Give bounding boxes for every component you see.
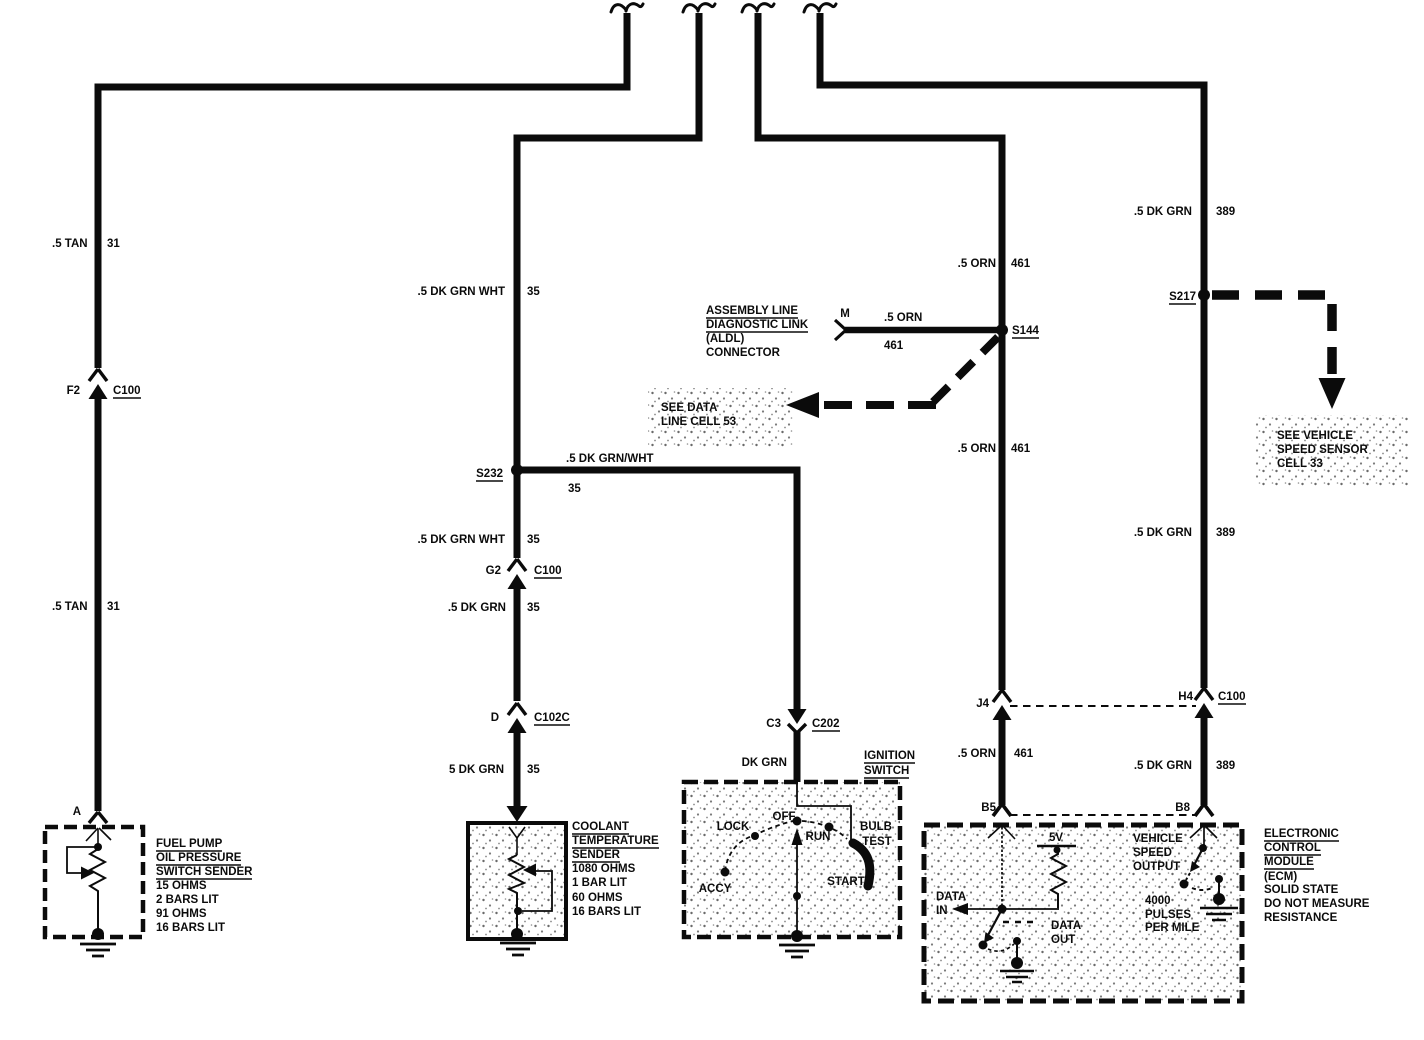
label .5 ORN 461 upper — [958, 258, 1031, 270]
splice S144 — [996, 324, 1008, 336]
fuel pump sender ground — [80, 944, 116, 956]
svg-text:DATA: DATA — [936, 891, 966, 903]
svg-text:31: 31 — [107, 238, 120, 250]
ignition switch OFF contact — [793, 817, 802, 826]
arrow into coolant sender — [507, 806, 528, 822]
svg-text:DK GRN: DK GRN — [742, 757, 787, 769]
fuel pump sender wiper loop — [67, 847, 98, 873]
svg-text:35: 35 — [527, 534, 540, 546]
svg-text:S144: S144 — [1012, 325, 1039, 337]
svg-text:ACCY: ACCY — [699, 883, 732, 895]
svg-text:60 OHMS: 60 OHMS — [572, 892, 623, 904]
ECM data junction node — [998, 905, 1007, 914]
svg-text:.5 DK GRN: .5 DK GRN — [1134, 527, 1192, 539]
svg-text:SPEED: SPEED — [1133, 847, 1172, 859]
svg-text:.5 DK GRN WHT: .5 DK GRN WHT — [417, 286, 505, 298]
coolant sender junction node — [514, 907, 522, 915]
fuel pump sender resistor — [90, 849, 105, 931]
fuel pump sender wiper arrow — [81, 867, 94, 880]
svg-text:.5 DK GRN WHT: .5 DK GRN WHT — [417, 534, 505, 546]
svg-text:F2: F2 — [67, 385, 80, 397]
ECM data out switch open contact — [979, 941, 988, 950]
svg-text:35: 35 — [568, 483, 581, 495]
svg-text:.5 ORN: .5 ORN — [958, 443, 996, 455]
svg-text:SPEED SENSOR: SPEED SENSOR — [1277, 444, 1368, 456]
coolant temperature sender box — [468, 823, 566, 939]
svg-text:.5 TAN: .5 TAN — [52, 238, 88, 250]
ignition switch detent arc dashed — [725, 821, 847, 871]
ignition switch ground — [779, 945, 815, 957]
svg-text:CONNECTOR: CONNECTOR — [706, 347, 781, 359]
svg-text:ELECTRONIC: ELECTRONIC — [1264, 828, 1339, 840]
ECM data out throw dashes — [1003, 921, 1036, 924]
svg-text:IGNITION: IGNITION — [864, 750, 915, 762]
wire .5 DK GRN WHT 35 from stub2 down to coolant sender — [517, 13, 699, 807]
electronic control module box — [924, 825, 1242, 1001]
connector B5 female half at ECM — [993, 804, 1011, 816]
svg-text:SOLID STATE: SOLID STATE — [1264, 884, 1339, 896]
coolant sender internal wire — [516, 838, 518, 855]
svg-text:35: 35 — [527, 602, 540, 614]
label F2 C100 — [67, 385, 141, 398]
ECM vss ground — [1200, 908, 1238, 920]
off-page curl symbol stub 1 — [611, 4, 643, 12]
svg-text:2 BARS LIT: 2 BARS LIT — [156, 894, 219, 906]
ECM vss throw dashes — [1192, 888, 1212, 890]
label B8 pin — [1175, 802, 1190, 814]
label BULB TEST — [860, 821, 892, 848]
svg-text:OUTPUT: OUTPUT — [1133, 861, 1180, 873]
svg-text:(ECM): (ECM) — [1264, 871, 1297, 883]
svg-text:461: 461 — [1014, 748, 1034, 760]
label G2 C100 — [486, 565, 562, 578]
ECM data line internal wire — [1001, 827, 1003, 906]
dashed connector line J4 H4 — [1010, 705, 1196, 707]
fuel pump sender junction node — [94, 843, 102, 851]
label ELECTRONIC CONTROL MODULE ECM — [1264, 828, 1370, 924]
svg-text:.5 ORN: .5 ORN — [958, 258, 996, 270]
arrow to data line cell 53 — [786, 392, 819, 418]
svg-text:35: 35 — [527, 286, 540, 298]
svg-text:MODULE: MODULE — [1264, 856, 1314, 868]
connector H4 C100 male arrow — [1195, 703, 1214, 718]
svg-text:D: D — [491, 712, 499, 724]
svg-text:S217: S217 — [1169, 291, 1196, 303]
label S144 — [1012, 325, 1039, 338]
svg-text:PER MILE: PER MILE — [1145, 922, 1200, 934]
svg-text:1080 OHMS: 1080 OHMS — [572, 863, 636, 875]
ECM data out dashed arc to ground contact — [988, 944, 1014, 951]
wire ALDL connector M to S144 — [845, 327, 1002, 334]
connector B8 female half at ECM — [1195, 804, 1213, 816]
svg-text:SEE DATA: SEE DATA — [661, 402, 717, 414]
ECM vss node — [1199, 844, 1207, 852]
dashed wire from S144 to data line reference — [820, 337, 998, 405]
coolant sender internal chevron — [509, 827, 525, 838]
label RUN — [806, 831, 831, 843]
label COOLANT TEMPERATURE SENDER — [572, 821, 659, 918]
coolant sender ground node — [511, 928, 523, 940]
label 4000 PULSES PER MILE — [1145, 895, 1200, 934]
svg-text:16 BARS LIT: 16 BARS LIT — [572, 906, 641, 918]
svg-text:DIAGNOSTIC LINK: DIAGNOSTIC LINK — [706, 319, 809, 331]
shaded background SEE DATA LINE CELL 53 — [648, 388, 793, 447]
ECM data out switch blade — [984, 911, 1001, 943]
svg-text:CELL 33: CELL 33 — [1277, 458, 1323, 470]
svg-text:SWITCH: SWITCH — [864, 765, 909, 777]
ECM pull-up resistor — [1051, 850, 1066, 908]
ECM vss switch open contact — [1180, 880, 1189, 889]
note SEE DATA LINE CELL 53 — [661, 402, 736, 428]
svg-text:IN: IN — [936, 905, 948, 917]
svg-text:4000: 4000 — [1145, 895, 1171, 907]
label DATA IN — [936, 891, 966, 917]
svg-text:35: 35 — [527, 764, 540, 776]
svg-text:DATA: DATA — [1051, 920, 1081, 932]
ECM vss ground contact — [1213, 875, 1225, 905]
label OFF — [773, 811, 796, 823]
svg-text:1 BAR LIT: 1 BAR LIT — [572, 877, 627, 889]
svg-text:TEST: TEST — [862, 836, 891, 848]
svg-text:FUEL PUMP: FUEL PUMP — [156, 838, 223, 850]
connector M female legs — [835, 320, 846, 340]
label VEHICLE SPEED OUTPUT — [1133, 833, 1183, 873]
connector C3 C202 female half — [788, 724, 806, 733]
svg-text:B8: B8 — [1175, 802, 1190, 814]
label .5 DK GRN 389 lower — [1134, 760, 1235, 772]
coolant sender wiper arrow — [523, 864, 536, 877]
svg-text:C100: C100 — [1218, 691, 1246, 703]
svg-text:PULSES: PULSES — [1145, 909, 1191, 921]
ECM data out ground contact — [1011, 937, 1023, 969]
ECM DATA IN arrow — [952, 903, 1059, 915]
label J4 — [976, 698, 989, 710]
connector H4 C100 female half — [1195, 688, 1213, 700]
wire .5 TAN 31 from stub1 down to fuel pump sender — [98, 13, 627, 811]
label .5 DK GRN 389 upper — [1134, 206, 1235, 218]
label LOCK — [717, 821, 750, 833]
connector J4 C100 female half — [993, 690, 1011, 702]
svg-text:C102C: C102C — [534, 712, 570, 724]
svg-text:S232: S232 — [476, 468, 503, 480]
label D C102C — [491, 712, 570, 725]
svg-text:461: 461 — [1011, 443, 1031, 455]
svg-text:461: 461 — [1011, 258, 1031, 270]
svg-text:SENDER: SENDER — [572, 849, 621, 861]
svg-text:.5 DK GRN: .5 DK GRN — [1134, 206, 1192, 218]
note SEE VEHICLE SPEED SENSOR CELL 33 — [1277, 430, 1368, 470]
ECM vss switch blade — [1186, 850, 1202, 880]
connector D C102C female half — [508, 703, 526, 715]
label assembly line diagnostic link connector — [706, 305, 809, 359]
label .5 DK GRN WHT 35 mid — [417, 534, 540, 546]
label DK GRN — [742, 757, 787, 769]
label S217 — [1169, 291, 1196, 304]
svg-text:VEHICLE: VEHICLE — [1133, 833, 1183, 845]
ECM vss internal wire — [1203, 827, 1205, 846]
fuel pump sender internal contact arc — [86, 828, 111, 841]
ignition switch feed line — [797, 784, 851, 841]
svg-text:SWITCH SENDER: SWITCH SENDER — [156, 866, 253, 878]
svg-text:LOCK: LOCK — [717, 821, 750, 833]
svg-text:J4: J4 — [976, 698, 989, 710]
svg-text:.5 ORN: .5 ORN — [958, 748, 996, 760]
label S232 — [476, 468, 503, 481]
svg-text:16 BARS LIT: 16 BARS LIT — [156, 922, 225, 934]
label M pin — [840, 308, 850, 320]
label .5 DK GRN/WHT 35 branch — [566, 453, 654, 495]
label .5 ORN 461 at ALDL — [884, 312, 922, 352]
label DATA OUT — [1051, 920, 1081, 946]
svg-text:OIL PRESSURE: OIL PRESSURE — [156, 852, 242, 864]
label C3 C202 — [766, 718, 840, 731]
ignition switch box — [684, 782, 900, 937]
svg-text:(ALDL): (ALDL) — [706, 333, 744, 345]
svg-text:ASSEMBLY LINE: ASSEMBLY LINE — [706, 305, 798, 317]
label A pin — [73, 806, 81, 818]
wire .5 ORN 461 from stub3 down to ECM B5 — [758, 13, 1002, 805]
label .5 TAN 31 lower — [52, 601, 120, 613]
label ACCY — [699, 883, 732, 895]
label .5 DK GRN 389 mid — [1134, 527, 1235, 539]
svg-text:15 OHMS: 15 OHMS — [156, 880, 207, 892]
label .5 ORN 461 lower — [958, 748, 1034, 760]
coolant sender wiper loop — [522, 871, 552, 911]
label H4 C100 — [1178, 691, 1246, 704]
label FUEL PUMP OIL PRESSURE SWITCH SENDER — [156, 838, 253, 934]
svg-text:SEE VEHICLE: SEE VEHICLE — [1277, 430, 1353, 442]
svg-text:OUT: OUT — [1051, 934, 1075, 946]
ECM 5V node — [1054, 847, 1061, 854]
svg-text:B5: B5 — [981, 802, 996, 814]
svg-text:RUN: RUN — [806, 831, 831, 843]
svg-text:H4: H4 — [1178, 691, 1193, 703]
coolant sender resistor — [509, 855, 524, 931]
ECM 5V supply bar — [1037, 845, 1076, 848]
splice S217 — [1198, 289, 1210, 301]
connector J4 C100 male arrow — [993, 705, 1012, 720]
svg-text:5V: 5V — [1049, 832, 1063, 844]
label 5 DK GRN 35 — [449, 764, 540, 776]
ignition switch LOCK contact — [751, 832, 759, 840]
label IGNITION SWITCH — [864, 750, 915, 778]
label 5V — [1049, 832, 1063, 844]
label B5 pin — [981, 802, 996, 814]
svg-text:.5 DK GRN: .5 DK GRN — [448, 602, 506, 614]
label .5 TAN 31 upper — [52, 238, 120, 250]
svg-text:.5 DK GRN/WHT: .5 DK GRN/WHT — [566, 453, 654, 465]
connector G2 C100 female half — [508, 559, 526, 571]
off-page curl symbol stub 2 — [683, 4, 715, 12]
svg-text:C3: C3 — [766, 718, 781, 730]
fuel pump sender ground node — [92, 928, 104, 940]
svg-text:COOLANT: COOLANT — [572, 821, 629, 833]
svg-text:389: 389 — [1216, 760, 1235, 772]
wire .5 DK GRN 389 from stub4 down to ECM B8 — [820, 13, 1204, 805]
ignition switch RUN contact — [825, 823, 834, 832]
svg-text:BULB: BULB — [860, 821, 892, 833]
fuel pump sender internal wire to junction — [97, 829, 99, 845]
svg-text:TEMPERATURE: TEMPERATURE — [572, 835, 659, 847]
label .5 DK GRN WHT 35 upper — [417, 286, 540, 298]
svg-text:C202: C202 — [812, 718, 840, 730]
svg-text:A: A — [73, 806, 81, 818]
svg-text:DO NOT MEASURE: DO NOT MEASURE — [1264, 898, 1370, 910]
ignition switch wire to ground — [796, 896, 798, 934]
off-page curl symbol stub 3 — [742, 4, 774, 12]
svg-text:G2: G2 — [486, 565, 501, 577]
svg-text:OFF: OFF — [773, 811, 796, 823]
connector D C102C male arrow — [508, 718, 527, 733]
svg-text:.5 TAN: .5 TAN — [52, 601, 88, 613]
connector C3 C202 male arrow pointing down — [788, 709, 807, 724]
label .5 ORN 461 mid — [958, 443, 1031, 455]
svg-text:RESISTANCE: RESISTANCE — [1264, 912, 1338, 924]
svg-text:START: START — [827, 876, 864, 888]
ECM B8 contact arc — [1190, 826, 1217, 838]
svg-text:389: 389 — [1216, 527, 1235, 539]
label .5 DK GRN 35 — [448, 602, 541, 614]
svg-text:91 OHMS: 91 OHMS — [156, 908, 207, 920]
connector F2 C100 female half — [89, 369, 107, 381]
off-page curl symbol stub 4 — [804, 4, 836, 12]
ECM B5 contact arc — [988, 826, 1015, 839]
svg-text:CONTROL: CONTROL — [1264, 842, 1321, 854]
shaded background SEE VEHICLE SPEED SENSOR CELL 33 — [1255, 415, 1408, 487]
coolant sender ground — [500, 943, 536, 955]
svg-text:C100: C100 — [113, 385, 141, 397]
svg-text:.5 ORN: .5 ORN — [884, 312, 922, 324]
ignition switch rotor arc — [853, 843, 870, 886]
splice S232 — [511, 464, 523, 476]
dashed connector line B5 B8 — [1010, 814, 1196, 816]
ignition switch ground node — [791, 930, 803, 942]
arrow to vehicle speed sensor cell 33 — [1319, 378, 1346, 409]
svg-text:.5 DK GRN: .5 DK GRN — [1134, 760, 1192, 772]
ignition switch ACCY contact — [721, 868, 730, 877]
label START — [827, 876, 864, 888]
svg-text:461: 461 — [884, 340, 904, 352]
dashed wire from S217 to vehicle speed sensor reference — [1212, 295, 1332, 380]
svg-text:5 DK GRN: 5 DK GRN — [449, 764, 504, 776]
svg-text:31: 31 — [107, 601, 120, 613]
svg-text:M: M — [840, 308, 850, 320]
connector G2 C100 male arrow — [508, 574, 527, 589]
svg-text:389: 389 — [1216, 206, 1235, 218]
ignition switch junction node — [793, 892, 801, 900]
fuel pump oil pressure switch sender box — [45, 827, 143, 937]
ignition switch wiper arrow — [792, 828, 803, 894]
connector A female half at fuel pump sender — [89, 812, 107, 823]
wire branch S232 to ignition switch C3 — [514, 470, 797, 783]
ECM data out ground — [1000, 971, 1034, 982]
connector F2 C100 male arrow — [89, 384, 108, 399]
svg-text:LINE CELL 53: LINE CELL 53 — [661, 416, 736, 428]
svg-text:C100: C100 — [534, 565, 562, 577]
